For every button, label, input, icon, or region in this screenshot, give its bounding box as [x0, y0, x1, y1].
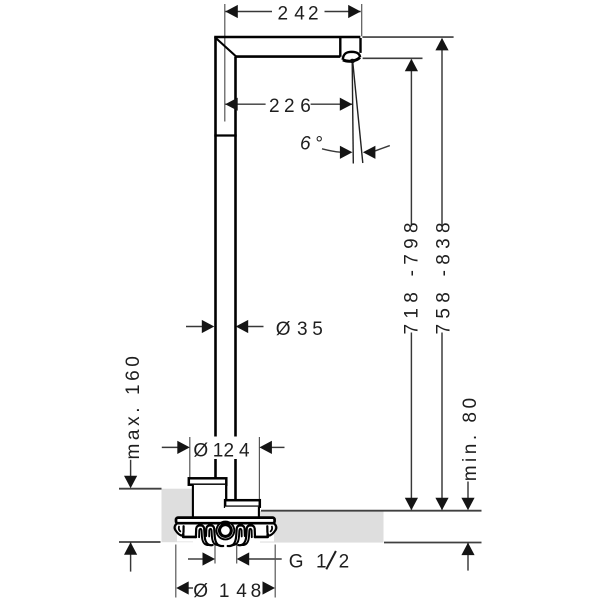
242 right extension line [361, 4, 363, 36]
column white fill [217, 38, 235, 478]
aerator dome [343, 52, 360, 60]
svg-text:Ø124: Ø124 [193, 440, 253, 461]
svg-text:718 -798: 718 -798 [402, 217, 423, 334]
242 right [348, 5, 361, 18]
floor gray left [162, 489, 194, 543]
758 down [435, 498, 448, 511]
svg-text:min. 80: min. 80 [460, 394, 481, 481]
svg-text:max. 160: max. 160 [123, 353, 144, 460]
O148 extension lines [175, 545, 177, 598]
spout bottom edge [235, 55, 340, 58]
flange left side linework [175, 523, 224, 546]
758 up [435, 38, 448, 51]
flange body white [177, 520, 274, 542]
plate right body [225, 507, 259, 518]
svg-text:Ø148: Ø148 [193, 581, 265, 600]
connection ring inner [220, 525, 232, 537]
aerator underside arc [343, 57, 360, 61]
corner chamfer [216, 38, 236, 56]
svg-text:226: 226 [269, 96, 315, 117]
min80 up [461, 543, 474, 556]
dim min80 upper stem [467, 482, 469, 500]
Ghalf right [237, 552, 250, 565]
petal 1 inner [199, 529, 209, 545]
svg-text:G12: G12 [289, 552, 354, 573]
max160 bottom up-arrow stem [130, 542, 132, 571]
G 1/2 slash [326, 551, 336, 569]
water stream left line [352, 62, 353, 164]
escutcheon near plate bar2 [225, 500, 260, 507]
dim G half stems [188, 558, 204, 560]
O148 right [263, 581, 276, 594]
226 left [225, 98, 238, 111]
petal 1 outer [196, 525, 213, 545]
O124 right [259, 441, 272, 454]
O35 left [202, 320, 215, 333]
718 down [405, 498, 418, 511]
O35 right [236, 320, 249, 333]
Ghalf left [203, 552, 216, 565]
O124 left [177, 441, 190, 454]
end hook [175, 523, 184, 535]
O124 extension right [258, 437, 260, 510]
ref line spout top right [362, 36, 453, 38]
dim 758-838 vertical line [441, 39, 443, 227]
6deg left-pointing [363, 146, 376, 159]
svg-text:Ø35: Ø35 [276, 319, 327, 340]
dim O124 stems [162, 446, 179, 448]
242 left [225, 5, 238, 18]
min80 down [461, 498, 474, 511]
max160 down [124, 476, 137, 489]
O148 left [176, 581, 189, 594]
floor gray right [260, 511, 384, 543]
petal 2 outer [206, 525, 223, 546]
spout column left edge [214, 37, 217, 478]
O124 extension left [189, 437, 191, 478]
spout column right edge [234, 57, 237, 501]
flange top bar [176, 518, 275, 524]
svg-text:242: 242 [278, 3, 323, 24]
max160 up [124, 542, 137, 555]
dim 226 line [225, 103, 265, 105]
aerator outlet blob [350, 59, 355, 63]
dim O35 stems [186, 326, 204, 328]
6deg right-pointing [340, 146, 353, 159]
petal 2 inner [209, 529, 219, 546]
flange right side linework (mirror) [228, 523, 277, 546]
step edge [225, 485, 227, 501]
floor line left bottom [119, 541, 161, 543]
dim min80 lower stem [467, 543, 469, 571]
dim 242 line [225, 11, 272, 13]
bottom ledge [183, 535, 196, 537]
floor line left top [119, 488, 162, 490]
226 right [340, 98, 353, 111]
escutcheon far plate bar1 [189, 478, 227, 484]
spout top edge [214, 36, 360, 39]
column joint line [214, 134, 236, 136]
6deg leader right [375, 146, 390, 151]
water stream right line [353, 62, 363, 164]
G half extension lines [214, 544, 216, 564]
arrows [124, 5, 475, 595]
aerator housing left edge [339, 38, 341, 57]
dim 718-798 vertical line [410, 60, 412, 227]
white backing for O124 text over column [192, 437, 253, 460]
floor line right top [261, 510, 482, 512]
6deg leader left [322, 149, 341, 152]
aerator housing right edge [359, 38, 361, 53]
center axis extension line [224, 4, 226, 122]
dim O148 line [187, 587, 193, 589]
connection ring outer [217, 522, 235, 540]
floor line right bottom [384, 542, 482, 544]
dim max160 stem [130, 460, 132, 477]
svg-text:6°: 6° [300, 134, 327, 155]
plate left body [193, 485, 226, 518]
svg-text:758 -838: 758 -838 [433, 217, 454, 334]
718 up [405, 59, 418, 72]
ref line aerator bottom right [363, 57, 423, 59]
